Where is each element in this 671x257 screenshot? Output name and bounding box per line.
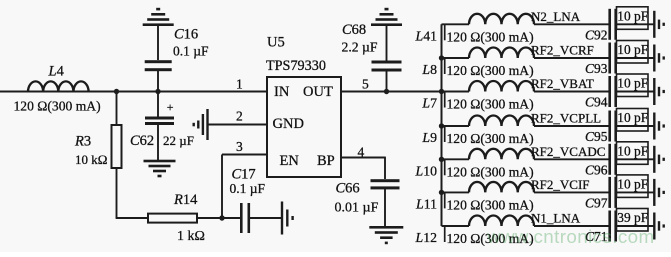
svg-text:TPS79330: TPS79330: [266, 58, 326, 74]
node net label RF2_VCRF: [531, 43, 594, 58]
wire OUT to bus: [341, 91, 442, 93]
wire EN riser: [221, 155, 223, 219]
inductor L8: [421, 47, 609, 79]
svg-text:RF2_VCPLL: RF2_VCPLL: [531, 111, 601, 126]
svg-text:10 pF: 10 pF: [617, 42, 648, 57]
svg-text:120 Ω(300 mA): 120 Ω(300 mA): [447, 164, 534, 180]
inductor L10: [415, 149, 610, 181]
capacitor C97: [585, 177, 617, 211]
wire BP pin to C66: [341, 157, 385, 159]
value label 10 pF: [617, 142, 654, 165]
node junction C16/C62: [155, 89, 160, 94]
svg-text:R3: R3: [74, 134, 91, 150]
inductor L9: [421, 115, 609, 147]
ground above C68: [371, 23, 402, 26]
svg-text:L7: L7: [421, 96, 437, 111]
svg-text:OUT: OUT: [303, 84, 333, 100]
svg-text:10 pF: 10 pF: [617, 177, 648, 192]
value label 10 pF: [617, 109, 654, 132]
svg-text:L11: L11: [415, 196, 437, 211]
svg-text:10 pF: 10 pF: [617, 110, 648, 125]
capacitor C66: [335, 179, 400, 226]
ground below C66: [369, 226, 403, 229]
capacitor C95: [585, 111, 617, 145]
node net label N1_LNA: [531, 211, 581, 226]
svg-text:L12: L12: [415, 230, 438, 245]
svg-text:120 Ω(300 mA): 120 Ω(300 mA): [447, 63, 534, 79]
svg-text:0.1 µF: 0.1 µF: [230, 181, 266, 196]
ground: [653, 113, 655, 140]
node bus row L10: [439, 157, 444, 162]
wire R14 to node: [197, 217, 222, 219]
svg-text:C62: C62: [130, 133, 154, 149]
svg-text:120 Ω(300 mA): 120 Ω(300 mA): [14, 99, 101, 115]
svg-text:10 pF: 10 pF: [617, 76, 648, 91]
ground: [653, 146, 655, 173]
node net label RF2_VCPLL: [531, 111, 601, 126]
svg-text:10 pF: 10 pF: [617, 9, 648, 24]
node bus row L8: [439, 55, 444, 60]
inductor L11: [415, 182, 609, 214]
capacitor C17: [230, 167, 266, 234]
ground: [653, 78, 655, 105]
capacitor C92: [585, 9, 617, 43]
svg-text:C95: C95: [585, 129, 608, 144]
node bus row L41: [440, 23, 442, 25]
svg-text:EN: EN: [280, 153, 300, 169]
svg-text:BP: BP: [317, 153, 335, 169]
svg-text:3: 3: [236, 139, 243, 154]
wire R3 stem: [116, 92, 118, 126]
node bus row L7: [439, 89, 444, 94]
svg-text:U5: U5: [267, 35, 285, 51]
svg-text:120 Ω(300 mA): 120 Ω(300 mA): [447, 197, 534, 213]
svg-text:1 kΩ: 1 kΩ: [177, 229, 205, 244]
svg-text:C93: C93: [585, 61, 608, 76]
node bus row L9: [439, 123, 444, 128]
svg-text:RF2_VCIF: RF2_VCIF: [531, 177, 590, 192]
svg-text:+: +: [167, 100, 174, 114]
value label 10 pF: [617, 41, 654, 64]
svg-text:2.2 µF: 2.2 µF: [342, 40, 378, 55]
svg-text:N1_LNA: N1_LNA: [531, 211, 581, 226]
ground at GND pin: [206, 109, 208, 140]
value label 10 pF: [617, 74, 654, 97]
inductor L7: [421, 81, 609, 113]
value label 10 pF: [617, 175, 654, 198]
svg-text:C96: C96: [585, 162, 608, 177]
node net label N2_LNA: [531, 9, 581, 24]
svg-text:RF2_VCADC: RF2_VCADC: [531, 144, 605, 159]
svg-text:1: 1: [236, 77, 243, 92]
svg-text:L10: L10: [415, 163, 438, 178]
capacitor C16: [145, 26, 209, 92]
svg-text:C16: C16: [174, 27, 198, 43]
svg-text:N2_LNA: N2_LNA: [531, 9, 581, 24]
ground: [653, 11, 655, 38]
wire main input rail: [0, 91, 267, 93]
svg-text:RF2_VBAT: RF2_VBAT: [531, 76, 594, 91]
capacitor C62: [130, 92, 194, 161]
capacitor C68: [342, 22, 402, 92]
ground: [653, 179, 655, 206]
wire node to C17: [222, 217, 240, 219]
wire output bus: [441, 24, 443, 226]
capacitor C71: [585, 211, 617, 245]
IC U5 TPS79330 regulator: [266, 35, 341, 178]
node EN junction: [219, 215, 224, 220]
svg-text:C97: C97: [585, 195, 608, 210]
svg-text:RF2_VCRF: RF2_VCRF: [531, 43, 594, 58]
svg-text:22 µF: 22 µF: [163, 133, 194, 148]
ground above C16: [143, 23, 174, 26]
svg-text:39 pF: 39 pF: [617, 210, 648, 225]
resistor R14: [148, 192, 205, 244]
svg-text:www.cntronics.com: www.cntronics.com: [486, 226, 655, 247]
wire R3 to R14: [116, 168, 118, 218]
capacitor C94: [585, 76, 617, 110]
svg-text:IN: IN: [274, 84, 290, 100]
svg-text:R14: R14: [173, 192, 198, 208]
svg-text:120 Ω(300 mA): 120 Ω(300 mA): [447, 131, 534, 147]
node bus row L12: [440, 225, 442, 227]
svg-text:C92: C92: [585, 27, 608, 42]
wire C17 to ground: [249, 217, 281, 219]
svg-text:0.01 µF: 0.01 µF: [335, 201, 379, 216]
resistor R3: [74, 125, 122, 168]
node net label RF2_VBAT: [531, 76, 594, 91]
value label 10 pF: [617, 7, 654, 30]
svg-text:GND: GND: [273, 116, 304, 132]
capacitor C96: [585, 144, 617, 178]
node junction R3: [114, 89, 119, 94]
node net label RF2_VCIF: [531, 177, 590, 192]
svg-text:C94: C94: [585, 95, 608, 110]
svg-text:120 Ω(300 mA): 120 Ω(300 mA): [447, 97, 534, 113]
node bus row L11: [439, 190, 444, 195]
wire GND pin: [208, 124, 267, 126]
node net label RF2_VCADC: [531, 144, 605, 159]
svg-text:120 Ω(300 mA): 120 Ω(300 mA): [447, 29, 534, 45]
svg-text:C68: C68: [342, 22, 366, 38]
ground below C62: [144, 160, 176, 163]
svg-text:10 pF: 10 pF: [617, 144, 648, 159]
value label 39 pF: [617, 209, 654, 232]
ground: [653, 213, 655, 240]
svg-text:2: 2: [236, 109, 243, 124]
inductor L12: [415, 215, 610, 247]
ground: [653, 45, 655, 72]
svg-text:L41: L41: [415, 28, 438, 43]
svg-text:L9: L9: [421, 130, 437, 145]
svg-text:L4: L4: [48, 64, 65, 80]
inductor L4: [14, 64, 101, 115]
svg-text:0.1 µF: 0.1 µF: [173, 44, 209, 59]
svg-text:L8: L8: [421, 62, 437, 77]
ground at C17: [281, 202, 283, 235]
svg-text:5: 5: [362, 77, 369, 92]
inductor L41: [415, 14, 610, 46]
svg-text:10 kΩ: 10 kΩ: [75, 152, 107, 167]
capacitor C93: [585, 43, 617, 77]
svg-text:C66: C66: [336, 181, 360, 197]
node junction C68: [384, 89, 389, 94]
